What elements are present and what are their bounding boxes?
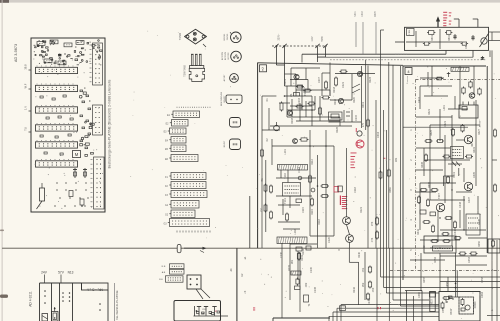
svg-text:C456: C456: [446, 281, 449, 288]
svg-text:C221: C221: [342, 81, 345, 88]
svg-text:TU: TU: [24, 127, 28, 131]
svg-text:C241: C241: [368, 298, 371, 305]
svg-text:C130: C130: [310, 266, 313, 273]
svg-text:R441: R441: [417, 228, 420, 235]
svg-text:38.8: 38.8: [24, 64, 28, 70]
svg-text:T201: T201: [304, 90, 307, 96]
svg-text:R31: R31: [395, 157, 398, 162]
svg-text:R462: R462: [445, 296, 448, 303]
svg-text:2N.: 2N.: [290, 93, 293, 97]
svg-text:N e - S c h: N e - S c h: [87, 287, 103, 291]
svg-text:C533: C533: [442, 306, 445, 313]
svg-text:R452: R452: [434, 256, 437, 263]
svg-text:C801: C801: [465, 42, 468, 49]
svg-text:TSW TA60: TSW TA60: [184, 65, 187, 77]
svg-text:C53: C53: [372, 287, 375, 292]
svg-text:AF239: AF239: [479, 120, 482, 127]
svg-text:R425: R425: [430, 129, 433, 136]
svg-text:R208: R208: [291, 117, 294, 124]
svg-text:T407: T407: [438, 193, 441, 199]
svg-text:C203: C203: [298, 97, 301, 104]
svg-text:F801: F801: [409, 29, 411, 35]
svg-text:N.B: N.B: [162, 266, 166, 268]
svg-text:R52: R52: [362, 282, 365, 287]
svg-text:C464: C464: [481, 291, 484, 298]
svg-text:R201: R201: [284, 78, 287, 85]
svg-text:R458: R458: [481, 276, 484, 283]
svg-text:30000: 30000: [474, 301, 477, 308]
svg-text:R240: R240: [358, 251, 361, 258]
svg-text:Ne-SENKR-PLATINE: Ne-SENKR-PLATINE: [115, 290, 119, 319]
svg-text:R433: R433: [428, 181, 431, 188]
svg-text:L102: L102: [294, 229, 297, 235]
svg-text:C443: C443: [459, 201, 462, 208]
svg-text:T102: T102: [284, 173, 287, 179]
svg-text:Bestückungs-Seite-PLATINE (Dru: Bestückungs-Seite-PLATINE (Drucksicht) 2…: [108, 79, 112, 168]
svg-text:R132: R132: [288, 264, 291, 271]
svg-text:220V~: 220V~: [279, 33, 281, 40]
svg-text:L101: L101: [284, 149, 287, 155]
svg-text:C304: C304: [377, 131, 380, 138]
svg-text:C136: C136: [314, 286, 317, 293]
svg-text:C412: C412: [418, 96, 421, 103]
svg-text:R118: R118: [318, 218, 321, 224]
svg-text:C448: C448: [454, 228, 457, 235]
svg-text:R455: R455: [423, 276, 426, 283]
svg-text:C62: C62: [305, 282, 308, 287]
svg-text:R242: R242: [353, 286, 356, 293]
svg-text:R421: R421: [428, 108, 431, 115]
svg-text:R534: R534: [450, 308, 453, 315]
svg-text:D401: D401: [453, 171, 456, 178]
svg-text:C51: C51: [362, 267, 365, 272]
svg-text:BC307B: BC307B: [225, 51, 227, 60]
svg-text:BF457: BF457: [224, 140, 226, 147]
svg-text:BD437: BD437: [224, 95, 226, 102]
svg-text:R218: R218: [333, 86, 336, 93]
svg-text:R445: R445: [478, 218, 481, 225]
svg-text:A.B: A.B: [162, 271, 166, 274]
svg-text:C453: C453: [468, 256, 471, 263]
svg-text:TR80: TR80: [322, 35, 324, 41]
svg-text:N13: N13: [68, 271, 74, 275]
svg-text:R73: R73: [371, 221, 374, 226]
svg-text:AD 4-9211: AD 4-9211: [29, 291, 33, 307]
svg-text:C215: C215: [355, 114, 358, 121]
svg-text:C114: C114: [298, 166, 301, 172]
svg-text:R134: R134: [302, 248, 305, 255]
svg-text:R61: R61: [291, 259, 294, 264]
svg-text:BC238: BC238: [228, 52, 230, 59]
svg-text:R431: R431: [473, 146, 476, 153]
svg-text:C437: C437: [468, 196, 471, 203]
svg-text:C460: C460: [418, 291, 421, 298]
svg-text:R427: R427: [478, 128, 481, 135]
svg-text:G.course: G.course: [407, 75, 409, 84]
svg-text:R223: R223: [369, 76, 372, 83]
svg-text:R801: R801: [431, 34, 434, 41]
svg-text:R405: R405: [375, 11, 377, 17]
svg-text:C435: C435: [473, 171, 476, 178]
svg-text:R.E: R.E: [159, 279, 163, 281]
svg-text:W.F: W.F: [24, 83, 28, 88]
svg-text:C74: C74: [371, 237, 374, 242]
svg-text:R119: R119: [311, 208, 314, 214]
svg-text:L401: L401: [443, 105, 446, 111]
svg-text:AC187: AC187: [223, 74, 226, 81]
svg-text:C120: C120: [328, 236, 331, 243]
svg-text:R: R: [338, 249, 341, 251]
svg-text:C402: C402: [362, 11, 364, 17]
svg-text:C130: C130: [280, 251, 283, 258]
svg-text:57V: 57V: [58, 271, 65, 275]
svg-text:R210: R210: [334, 98, 337, 105]
svg-text:R226: R226: [336, 126, 339, 133]
svg-text:R121: R121: [360, 206, 363, 213]
svg-text:R450: R450: [478, 240, 481, 247]
svg-text:N533: N533: [432, 299, 434, 305]
svg-text:R112: R112: [311, 158, 314, 164]
svg-text:175: 175: [362, 122, 365, 127]
svg-text:S401: S401: [355, 11, 357, 17]
svg-text:R802: R802: [448, 34, 451, 41]
svg-text:R220: R220: [353, 96, 356, 103]
svg-text:AD 3-9873: AD 3-9873: [14, 44, 18, 62]
svg-text:C207: C207: [318, 76, 321, 83]
svg-text:BD433/BD434: BD433/BD434: [221, 91, 223, 106]
svg-text:110V: 110V: [312, 36, 314, 42]
svg-text:1.V: 1.V: [24, 106, 28, 110]
svg-text:BD241: BD241: [224, 33, 226, 40]
svg-text:R436: R436: [421, 161, 424, 168]
svg-text:TD500: TD500: [179, 32, 182, 40]
svg-text:C118: C118: [354, 186, 357, 192]
svg-text:R301: R301: [362, 101, 365, 108]
svg-text:BC237B: BC237B: [222, 51, 224, 60]
svg-text:T101: T101: [284, 198, 287, 204]
svg-text:C421: C421: [444, 120, 447, 127]
svg-text:2N290: 2N290: [227, 33, 229, 40]
svg-text:C115: C115: [302, 206, 305, 212]
svg-text:M: M: [75, 152, 79, 157]
svg-text:24V: 24V: [41, 271, 48, 275]
